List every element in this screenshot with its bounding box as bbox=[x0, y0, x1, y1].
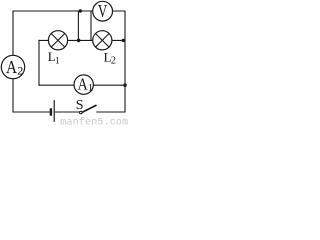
node dot A1 row meets right wire bbox=[123, 83, 127, 87]
node dot lamp row meets right wire bbox=[122, 39, 125, 42]
wire bottom-right (switch to right wire) bbox=[97, 111, 125, 113]
wire lamp row (L1-L2 branch) bbox=[39, 39, 125, 41]
wire vertical connector 2 (voltmeter left lead to L2 left) bbox=[90, 11, 92, 40]
svg-text:1: 1 bbox=[88, 82, 94, 94]
svg-text:2: 2 bbox=[17, 64, 23, 78]
svg-text:A: A bbox=[6, 57, 17, 77]
node dot on top wire at connector 1 bbox=[79, 9, 82, 12]
wire left (battery to A2 to top) bbox=[12, 11, 14, 112]
wire bottom-middle (battery to switch) bbox=[54, 111, 80, 113]
lamp L2 bbox=[93, 31, 116, 67]
wire bottom-left (battery negative lead) bbox=[13, 111, 50, 113]
voltmeter V bbox=[93, 1, 113, 21]
switch S pivot bbox=[80, 111, 83, 114]
wire right (node R vertical) bbox=[124, 11, 126, 112]
wire A1 row (L1 branch through A1 to node R) bbox=[39, 84, 125, 86]
wire vertical connector 1 (top wire to L1-L2 junction) bbox=[77, 11, 79, 40]
battery (cell): short thick negative plate bbox=[50, 108, 52, 115]
wire top (node between A2 and voltmeter) bbox=[13, 10, 125, 12]
wire vertical from L1 left down to A1 row bbox=[38, 40, 40, 85]
svg-text:S: S bbox=[76, 98, 84, 113]
svg-text:A: A bbox=[78, 75, 89, 94]
svg-text:2: 2 bbox=[111, 56, 116, 67]
lamp L1 bbox=[48, 31, 68, 67]
svg-text:manfen5.com: manfen5.com bbox=[60, 116, 128, 125]
battery (cell): long thin positive plate bbox=[53, 100, 55, 122]
ammeter A1 bbox=[74, 75, 93, 94]
ammeter A2 bbox=[1, 55, 24, 78]
svg-text:1: 1 bbox=[55, 56, 60, 66]
switch S blade (open) bbox=[82, 105, 97, 112]
node dot between L1 and L2 bbox=[77, 39, 81, 43]
svg-text:V: V bbox=[98, 2, 108, 22]
